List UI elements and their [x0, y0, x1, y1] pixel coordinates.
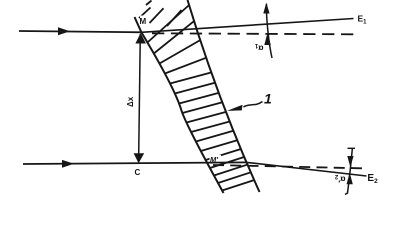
leader line of reference 1 — [244, 102, 263, 108]
delta-x bottom arrowhead — [134, 153, 145, 163]
angle arc alpha1 — [266, 4, 272, 58]
incident ray top arrowhead — [58, 27, 70, 35]
alpha1 lower arrowhead — [264, 34, 271, 46]
svg-text:M': M' — [210, 155, 218, 164]
alpha1 top arrowhead — [263, 3, 269, 14]
svg-text:Δx: Δx — [126, 96, 135, 107]
svg-text:E2: E2 — [367, 173, 378, 185]
svg-text:α'2: α'2 — [334, 173, 345, 185]
alpha2' down arrowhead — [347, 156, 353, 167]
element 1 hatching — [139, 1, 254, 191]
leader arrowhead of reference 1 — [227, 105, 243, 111]
incident ray bottom — [23, 162, 247, 164]
dashed undeviated ray top — [152, 33, 353, 34]
element 1 left edge (through M and M') — [135, 17, 224, 193]
white backing for label M — [140, 16, 147, 24]
white backing for label M' — [210, 155, 222, 162]
delta-x top arrowhead — [135, 33, 146, 44]
alpha2' up arrowhead — [347, 173, 353, 185]
refracted ray E1 — [142, 19, 354, 33]
element 1 right edge — [188, 0, 260, 192]
delta-x measurement arrow — [139, 34, 141, 162]
incident ray bottom arrowhead — [62, 160, 74, 168]
svg-text:C: C — [135, 168, 141, 177]
svg-text:M: M — [140, 17, 147, 26]
svg-text:α1: α1 — [254, 42, 263, 54]
refracted ray E2 — [247, 162, 367, 176]
dashed undeviated ray bottom — [213, 165, 362, 168]
angle arc alpha2' — [345, 149, 352, 195]
alpha2' top tick — [348, 147, 356, 149]
svg-text:1: 1 — [264, 91, 272, 107]
incident ray top — [19, 31, 143, 32]
svg-text:E1: E1 — [358, 14, 368, 26]
